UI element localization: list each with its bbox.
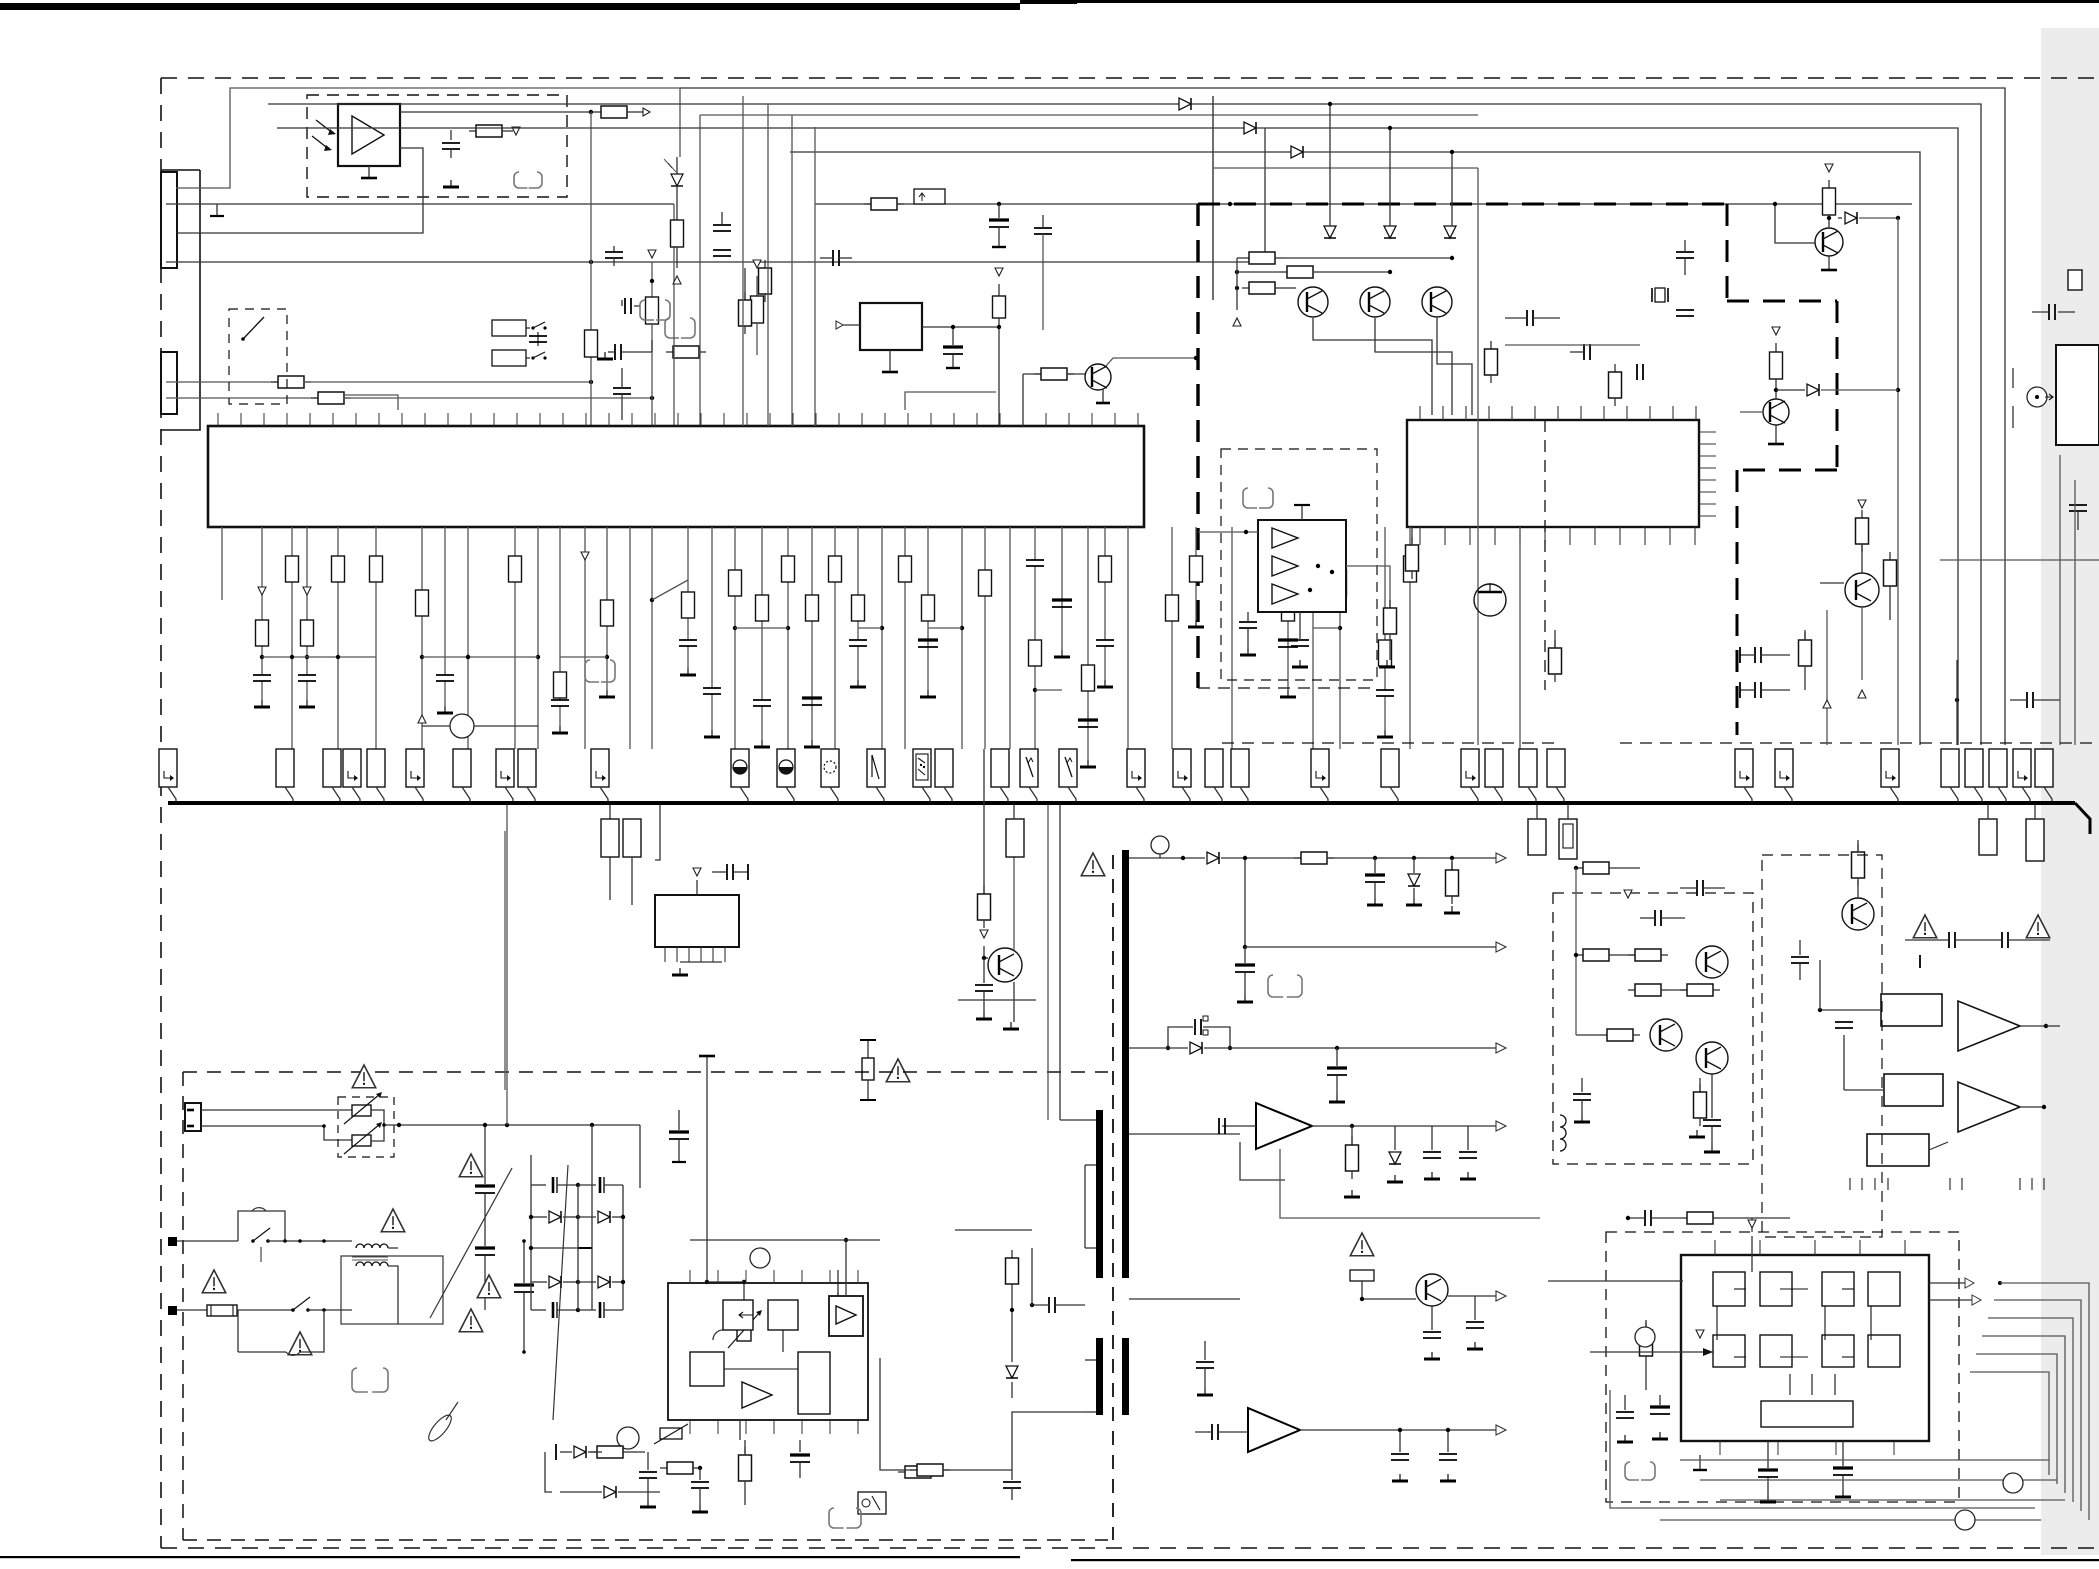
wire top-to-IC1 x792 xyxy=(791,115,793,426)
logic links xyxy=(1717,1289,1871,1395)
wire Q20 emit xyxy=(958,982,1036,1029)
vert x592 xyxy=(591,1125,593,1310)
logic caps left xyxy=(1616,1395,1670,1442)
wire above IC1 b xyxy=(0,0,1,1)
warning hot side xyxy=(1081,853,1104,876)
outer dashed border top xyxy=(161,77,2099,79)
wire bundle right xyxy=(1970,1372,2049,1475)
resistor ladder r3 xyxy=(1235,282,1296,294)
logic inner box mid xyxy=(1760,1335,1792,1367)
v-amp wires xyxy=(1574,868,1578,1035)
transistor Q20 xyxy=(988,948,1022,982)
bus pin box xyxy=(453,749,471,801)
mains connector xyxy=(185,1103,201,1131)
heavy dashed right seg xyxy=(1727,204,1837,735)
diode D60 xyxy=(556,1444,602,1460)
res R62 xyxy=(660,1462,702,1474)
capacitor C10 xyxy=(605,246,623,266)
bus pin box xyxy=(1059,749,1077,801)
bus pin box xyxy=(935,749,953,801)
IR module U30 xyxy=(338,104,400,166)
IC U3 pin stub top xyxy=(1672,406,1674,420)
chassis bus right kink xyxy=(2075,803,2090,834)
wire IC U1 pin net xyxy=(599,527,615,697)
wire IC U1 pin net xyxy=(679,527,697,675)
dashed h 743 xyxy=(1222,742,1560,744)
wire Q11 down xyxy=(1375,318,1452,415)
Q13 collector resistor xyxy=(1823,164,1836,228)
forest link 8 xyxy=(1035,689,1062,691)
bus pin box xyxy=(1231,749,1249,801)
Q13 base wire xyxy=(1773,202,1815,243)
cap C12 pair xyxy=(608,340,652,360)
SMPS inner box B xyxy=(768,1300,798,1330)
transformer primary bar upper xyxy=(1096,1110,1103,1278)
wire bundle right xyxy=(1976,1354,2057,1484)
res block A xyxy=(601,819,619,857)
wire Q1 emit xyxy=(1096,389,1110,403)
wire mid right xyxy=(1505,344,1640,346)
IC U3 pin stub top xyxy=(1442,406,1444,420)
warning fuse xyxy=(202,1270,225,1293)
wire IC U1 pin net xyxy=(729,527,742,749)
wire IC U1 pin net xyxy=(1052,527,1072,657)
wire smps-transformer xyxy=(880,1358,1012,1470)
sub IC pins xyxy=(665,947,725,975)
resistor R22 xyxy=(864,198,904,210)
power dashed box xyxy=(183,1071,1108,1073)
res R66 xyxy=(1006,1250,1019,1312)
jumper J2 xyxy=(640,300,670,320)
wire top-to-IC1 x743 xyxy=(742,96,744,426)
warning T2 xyxy=(381,1209,404,1232)
transformer secondary bar lower xyxy=(1122,1338,1129,1415)
bridge cap TR xyxy=(578,1177,623,1193)
IC U1 pin stub top xyxy=(355,413,357,426)
IC U3 pin stub bottom xyxy=(1669,527,1671,545)
connector P1 upper pins xyxy=(161,172,177,268)
IC U1 pin stub top xyxy=(378,413,380,426)
IC U1 pin stub top xyxy=(217,413,219,426)
wire IC U1 pin net xyxy=(829,527,842,749)
transformer primary bar lower xyxy=(1096,1338,1103,1415)
logic bottom jumper xyxy=(1625,1462,1655,1480)
IC U1 pin stub top xyxy=(401,413,403,426)
wire IC U1 pin net xyxy=(899,527,912,749)
IC U1 pin stub top xyxy=(815,413,817,426)
IC U1 pin stub top xyxy=(263,413,265,426)
cap pair right B xyxy=(1740,682,1790,698)
wire drop 984 xyxy=(983,749,985,894)
wire bundle right xyxy=(1988,1318,2073,1502)
IC U3 pin stub bottom xyxy=(1694,527,1696,545)
v-amp res r2 xyxy=(1628,949,1668,961)
bridge diode R1 xyxy=(578,1211,625,1223)
IC U1 pin stub top xyxy=(332,413,334,426)
IC U3 pin stub top xyxy=(1649,406,1651,420)
xtal X2 xyxy=(1652,288,1668,302)
IC U3 pin stub top xyxy=(1465,406,1467,420)
warning rowA 2 xyxy=(2026,915,2049,938)
transistor Q13 xyxy=(1815,228,1843,256)
v-amp res in xyxy=(1574,862,1640,874)
sub IC top pin xyxy=(693,868,701,895)
pointer balloon xyxy=(425,1402,458,1444)
wire hb2 in xyxy=(1844,1035,1884,1090)
res R64 xyxy=(898,1466,938,1478)
wire IC U1 pin net xyxy=(332,527,345,749)
wire bundle h4 xyxy=(1720,1499,2065,1501)
bus pin box xyxy=(496,749,514,801)
wire IC U1 pin net xyxy=(802,527,822,747)
circle tp right xyxy=(2003,1473,2023,1493)
bus pin box xyxy=(731,749,749,801)
IC U3 pin stub bottom xyxy=(1619,527,1621,545)
warning rowA 1 xyxy=(1913,915,1936,938)
half switch xyxy=(713,1330,723,1340)
logic out wires xyxy=(1929,1278,2002,1305)
transistor Q15 xyxy=(1474,583,1506,616)
wire primary top xyxy=(1060,1120,1096,1412)
vert wire x678b xyxy=(0,0,1,1)
res R60 xyxy=(832,1270,845,1358)
wire IC U1 pin net xyxy=(703,527,721,737)
res block B xyxy=(623,819,641,857)
wire R30 right xyxy=(509,127,520,135)
T2 wires xyxy=(352,1241,398,1324)
zener D11 xyxy=(1384,226,1396,238)
cap hb left2 xyxy=(1835,1020,1853,1035)
IC U3 pin stub right xyxy=(1699,515,1716,517)
wire hamp2 out xyxy=(2020,1105,2046,1109)
logic wide box xyxy=(1761,1401,1853,1427)
IC U1 pin stub top xyxy=(930,413,932,426)
wire IC U1 pin net xyxy=(1096,527,1114,687)
sub IC U5 xyxy=(655,895,739,947)
bridge diode R2 xyxy=(578,1276,625,1288)
wire edge h2 xyxy=(1956,660,1958,745)
dashed h 743b xyxy=(1620,742,2099,744)
bus pin box xyxy=(1519,749,1537,801)
primary top wire xyxy=(665,1099,1096,1101)
forest link 7 xyxy=(928,627,962,629)
resistor R30 xyxy=(469,125,509,137)
res v 1805 xyxy=(1799,630,1812,690)
diode D61 xyxy=(560,1486,660,1498)
vertical amp dashed box xyxy=(1553,893,1753,1164)
IC U3 pin stub right xyxy=(1699,455,1716,457)
wire primary feed xyxy=(1012,1412,1060,1470)
outer dashed border bottom xyxy=(161,1547,2099,1549)
forest link 6 xyxy=(858,627,882,629)
res Q31 base xyxy=(1360,1297,1416,1301)
resistor R5 col677 xyxy=(671,186,684,284)
SMPS tri box xyxy=(829,1296,863,1336)
cap C50 xyxy=(514,1239,534,1354)
audio amp U6 xyxy=(1256,1103,1312,1149)
res v 984 xyxy=(978,886,991,938)
wire IC U1 pin net xyxy=(880,527,884,749)
degauss dashed box xyxy=(338,1097,394,1157)
forest link 5 xyxy=(735,627,788,629)
sec5 line xyxy=(1129,1291,1506,1301)
warning ycap bottom xyxy=(459,1309,482,1332)
switch block rect A xyxy=(492,320,526,336)
pointer line 1 xyxy=(553,1165,568,1420)
wire IC U1 pin net xyxy=(221,527,223,600)
bus pin box xyxy=(1941,749,1959,801)
resistor R2 xyxy=(646,250,659,426)
wire IC U1 pin net xyxy=(1334,527,1347,749)
wire IC U1 pin net xyxy=(551,527,569,733)
IC U1 pin stub top xyxy=(746,413,748,426)
amp in net xyxy=(1219,1118,1285,1180)
below-bus pin box 1988 xyxy=(1979,805,1997,855)
bnc circle xyxy=(2027,387,2053,407)
page header rule right xyxy=(1077,0,2099,3)
warning degauss xyxy=(352,1065,375,1088)
resistor R20 xyxy=(759,260,772,302)
IC U1 pin stub top xyxy=(1114,413,1116,426)
caps rowA stubs xyxy=(1905,925,2050,940)
wire IC U1 pin net xyxy=(286,527,299,749)
circle tp right2 xyxy=(1955,1510,1975,1530)
heavy dash v2 xyxy=(0,0,1,1)
v-amp arr xyxy=(1624,890,1632,898)
wire IC U1 pin net xyxy=(581,527,589,749)
cap Q20 xyxy=(975,958,993,1019)
Q14 emitter xyxy=(1768,425,1784,444)
sec1 caps xyxy=(1365,856,1460,913)
wire edge h1 xyxy=(1940,559,2099,561)
wire opamp left xyxy=(1198,530,1258,534)
wire vr rail xyxy=(660,1341,880,1358)
IC U1 pin stub top xyxy=(585,413,587,426)
IC U3 pin stub top xyxy=(1488,406,1490,420)
jumper J3 xyxy=(665,318,695,338)
bus pin box xyxy=(1020,749,1038,801)
pointer line 2 xyxy=(430,1168,512,1318)
bus pin box xyxy=(913,749,931,801)
SMPS controller outline xyxy=(668,1283,868,1420)
wire v1898 xyxy=(1896,218,1900,745)
wire IC U1 pin net xyxy=(1312,527,1314,749)
wire top bus B xyxy=(268,104,1981,745)
ycap column xyxy=(475,1123,495,1310)
v-amp res r4 xyxy=(1680,984,1720,996)
resistor R41 xyxy=(1609,364,1622,406)
wire bundle right xyxy=(2000,1283,2089,1520)
cap pair B xyxy=(739,268,752,334)
cap C66 xyxy=(1030,1297,1085,1313)
logic inner box top xyxy=(1822,1272,1854,1306)
amp2 in xyxy=(1195,1424,1248,1440)
service switch S1 xyxy=(241,317,264,341)
resistor R6 xyxy=(666,346,706,358)
h-block 1 xyxy=(1881,994,1942,1026)
Q14 diode xyxy=(1776,384,1898,396)
v-amp res r5 xyxy=(1576,1029,1640,1041)
cap right3 xyxy=(1676,310,1694,316)
cap under opamp xyxy=(1239,612,1257,655)
capacitor C11 xyxy=(622,298,640,314)
logic inner box top xyxy=(1760,1272,1792,1306)
wire IC U1 pin net xyxy=(960,527,964,749)
transistor Q14 xyxy=(1763,399,1789,425)
forest link 1 xyxy=(262,655,376,659)
bus pin box xyxy=(821,749,839,801)
mains wire neutral xyxy=(201,1124,352,1140)
small tick marks xyxy=(1850,1178,2044,1190)
wire drop 505b xyxy=(504,831,506,1090)
bridge diode L2 xyxy=(531,1276,580,1288)
wire bundle bottom xyxy=(1660,1519,2041,1521)
bus pin box xyxy=(1547,749,1565,801)
wire conn pin3 xyxy=(166,128,1265,262)
transistor Q16 xyxy=(1845,573,1879,607)
res R61 xyxy=(590,1446,645,1458)
IC U1 pin stub top xyxy=(769,413,771,426)
IC U1 pin stub top xyxy=(1137,413,1139,426)
cap right1 xyxy=(1505,310,1560,326)
IC U3 pin stub bottom xyxy=(1644,527,1646,545)
IC U3 pin stub top xyxy=(1626,406,1628,420)
wire IC U1 pin net xyxy=(979,527,992,749)
wire Q1 base xyxy=(1023,368,1085,426)
wire Q16 net xyxy=(1820,500,1869,698)
zener D12 xyxy=(1444,226,1456,238)
secondary out 2 xyxy=(1243,856,1506,952)
wire ladder stub xyxy=(1233,258,1242,326)
logic inner box mid xyxy=(1713,1335,1745,1367)
wire top bus C xyxy=(700,115,1478,426)
v-amp res down xyxy=(1689,1078,1707,1137)
wire conn pin5 xyxy=(166,376,593,388)
bridge cap TL xyxy=(531,1177,580,1193)
below-bus pin box 1568 xyxy=(1559,805,1577,859)
outer dashed border left xyxy=(160,78,162,1548)
wire IC U1 pin net xyxy=(370,527,383,749)
bus pin box xyxy=(1965,749,1983,801)
wire IC U1 pin net xyxy=(1166,527,1179,749)
IC U3 pin stub top xyxy=(1580,406,1582,420)
opamp tri 2 xyxy=(1272,556,1298,576)
wire mid bottom h xyxy=(739,1420,741,1440)
SMPS opamp xyxy=(742,1382,772,1408)
wire IC U1 pin net xyxy=(253,527,271,707)
cap pre logic xyxy=(1626,1210,1790,1226)
cap hb left xyxy=(1791,940,1809,980)
logic dashed box xyxy=(1606,1232,1959,1502)
diode D62 xyxy=(1006,1310,1018,1398)
wire drop 632 xyxy=(631,857,633,905)
transformer secondary bar xyxy=(1122,850,1129,1278)
bridge out bottom xyxy=(560,1310,578,1338)
wire IR out to right xyxy=(400,106,650,118)
jumper J30 xyxy=(514,172,542,188)
cap C65 xyxy=(1003,1470,1021,1500)
IC U1 pin stub top xyxy=(953,413,955,426)
res R65 xyxy=(910,1464,950,1476)
opamp tri 1 xyxy=(1272,528,1298,548)
warning C50 xyxy=(477,1275,500,1298)
wire IC U1 pin net xyxy=(416,527,429,749)
switch block rect B xyxy=(492,350,526,366)
IC U3 pin stub bottom xyxy=(1419,527,1421,545)
bus pin box xyxy=(1989,749,2007,801)
wire Q10 down xyxy=(1313,318,1432,415)
page header rule left xyxy=(0,3,1020,10)
cap C13 xyxy=(613,368,631,420)
sec2 cap xyxy=(1235,947,1255,1002)
cap C5 xyxy=(529,332,547,346)
wire drop 610 xyxy=(609,805,611,900)
IC U1 pin stub top xyxy=(1068,413,1070,426)
gnd C12 xyxy=(597,352,613,359)
page footer rule right xyxy=(1071,1559,2099,1561)
IC U3 pin stub top xyxy=(1419,406,1421,420)
wire bundle h3 xyxy=(1700,1479,2057,1481)
IC U1 pin stub top xyxy=(907,413,909,426)
mains terminal L xyxy=(168,1237,238,1246)
sec1 circle TP xyxy=(1151,836,1169,858)
IC U3 pin stub bottom xyxy=(1544,527,1546,545)
bus pin box xyxy=(777,749,795,801)
wire IC U1 pin net xyxy=(1376,527,1394,737)
wire gray v1 xyxy=(2059,455,2061,745)
logic inner box top xyxy=(1713,1272,1745,1306)
wire U2 out xyxy=(922,326,999,328)
sec amp fb xyxy=(1280,1149,1540,1218)
IC U1 pin stub top xyxy=(424,413,426,426)
forest circle TP1 xyxy=(418,714,538,738)
v-amp res r1 xyxy=(1576,949,1640,961)
forest link 3 xyxy=(560,656,607,658)
wire v 1478 xyxy=(1477,168,1479,745)
bus pin box xyxy=(1127,749,1145,801)
IC U1 pin stub top xyxy=(447,413,449,426)
IC U3 pin stub bottom xyxy=(1519,527,1521,545)
bus pin box xyxy=(1461,749,1479,801)
service switch dashed box xyxy=(229,309,287,404)
v-amp cap left xyxy=(1573,1078,1591,1122)
transistor Q30 drive xyxy=(955,1229,1032,1231)
cap C42 xyxy=(1570,344,1590,360)
wire HV rail xyxy=(640,1125,679,1135)
IC U1 (jungle) box xyxy=(208,426,1144,527)
wire above IC1 a xyxy=(345,395,398,410)
IR LED D30 xyxy=(664,157,683,186)
heavy dashed vertical barrier top xyxy=(1196,204,1199,688)
bridge out right top xyxy=(623,1185,640,1188)
wire v 1827 xyxy=(1823,610,1831,745)
IC U3 pin stub right xyxy=(1699,443,1716,445)
wire U2 left tag xyxy=(836,321,860,329)
switch S4 loop xyxy=(238,1310,293,1352)
bus pin box xyxy=(867,749,885,801)
cap under opamp2 xyxy=(1291,612,1309,667)
tp circle D xyxy=(617,1427,639,1449)
IC U3 pin stub top xyxy=(1511,406,1513,420)
IC U3 pin stub right xyxy=(1699,431,1716,433)
wire primary left runs xyxy=(1060,1165,1085,1412)
jumper sec2 xyxy=(1268,975,1302,997)
wire conn pin2 xyxy=(166,202,1912,206)
resistor R40 xyxy=(1485,341,1498,383)
wire drop 1060 xyxy=(1048,805,1060,1120)
IC U3 pin stub right xyxy=(1699,491,1716,493)
bus pin box xyxy=(367,749,385,801)
